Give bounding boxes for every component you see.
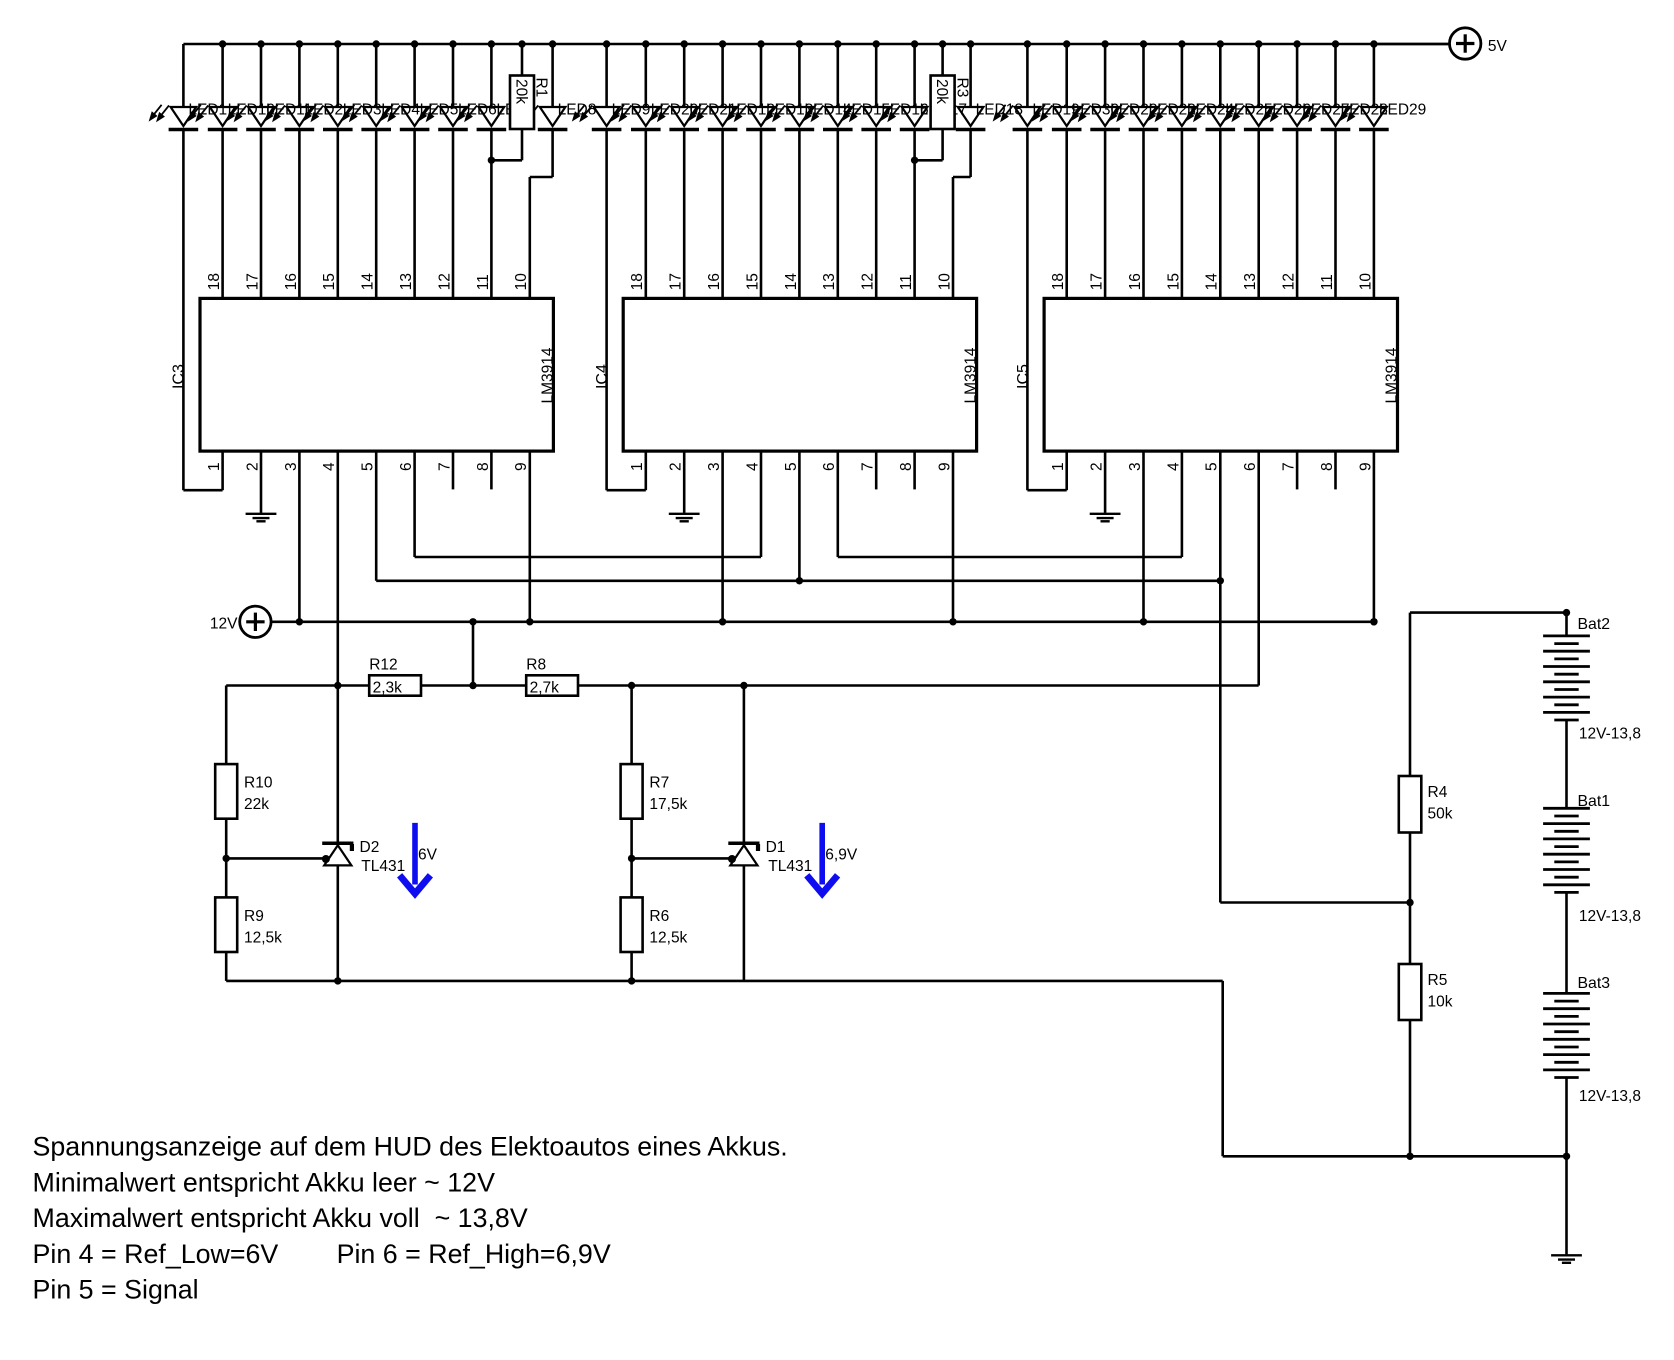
- svg-text:LM3914: LM3914: [963, 347, 980, 403]
- IC4 LM3914 body: [623, 298, 976, 451]
- wire pin2 IC3 to ground: [260, 451, 263, 513]
- wire LED11 cathode to IC3 top pin: [260, 130, 263, 299]
- wire LED9 cathode down to pin 1 of IC4: [605, 130, 608, 491]
- wire R9 to bottom bus: [225, 952, 228, 981]
- wire LED7 anode to 5V rail: [490, 44, 493, 107]
- svg-text:15: 15: [1165, 273, 1182, 290]
- svg-text:2: 2: [668, 462, 685, 471]
- svg-text:Pin 5 = Signal: Pin 5 = Signal: [33, 1275, 199, 1305]
- wire Ref chain IC4 pin6 to IC5 pin4: [838, 556, 1182, 559]
- svg-text:2: 2: [244, 462, 261, 471]
- svg-text:18: 18: [1050, 273, 1067, 290]
- svg-text:Pin 4 = Ref_Low=6V: Pin 4 = Ref_Low=6V: [33, 1239, 279, 1269]
- wire pin9 IC4 to 12V rail: [952, 451, 955, 622]
- wire pin2 IC4 to ground: [683, 451, 686, 513]
- LED LED11: [228, 105, 276, 130]
- LED LED28: [1302, 105, 1350, 130]
- resistor R8 body: [526, 675, 578, 695]
- wire LED10 anode to 5V rail: [221, 44, 224, 107]
- svg-text:10: 10: [513, 273, 530, 291]
- svg-text:12V: 12V: [210, 615, 238, 632]
- svg-text:R8: R8: [526, 657, 546, 674]
- wire LED29 cathode to IC5 top pin: [1373, 130, 1376, 299]
- wire LED25 anode to 5V rail: [1219, 44, 1222, 107]
- svg-text:3: 3: [706, 462, 723, 471]
- shunt regulator D1 TL431: [728, 842, 760, 866]
- resistor R10 body: [215, 764, 237, 819]
- svg-text:18: 18: [206, 273, 223, 290]
- svg-text:15: 15: [321, 273, 338, 290]
- wire LED27 cathode to IC5 top pin: [1296, 130, 1299, 299]
- svg-text:13: 13: [821, 273, 838, 290]
- wire pin3 IC4 to 12V rail: [721, 451, 724, 622]
- LED LED1: [150, 105, 198, 130]
- wire LED3 cathode to IC3 top pin: [336, 130, 339, 299]
- svg-text:16: 16: [283, 273, 300, 290]
- svg-text:11: 11: [898, 274, 915, 290]
- wire pin6 IC5 down: [1257, 451, 1260, 685]
- svg-text:3: 3: [283, 462, 300, 471]
- wire LED30 cathode to IC5 top pin: [1065, 130, 1068, 299]
- svg-text:1: 1: [206, 462, 223, 471]
- wire R3 to 5V rail: [941, 44, 944, 76]
- wire signal bus pin5: [376, 579, 1220, 582]
- svg-text:10k: 10k: [1428, 994, 1453, 1011]
- svg-text:IC3: IC3: [171, 364, 188, 389]
- wire pin6 IC3 down: [413, 451, 416, 557]
- svg-text:6: 6: [821, 462, 838, 471]
- svg-text:15: 15: [744, 273, 761, 290]
- ground symbol at IC5 pin 2: [1090, 514, 1121, 522]
- wire LED30 anode to 5V rail: [1065, 44, 1068, 107]
- svg-text:7: 7: [1281, 462, 1298, 471]
- svg-text:6V: 6V: [418, 847, 438, 864]
- wire LED18 anode to 5V rail: [969, 44, 972, 107]
- LED LED18: [937, 105, 985, 130]
- svg-text:Pin 6 = Ref_High=6,9V: Pin 6 = Ref_High=6,9V: [337, 1239, 611, 1269]
- svg-text:Spannungsanzeige auf dem HUD d: Spannungsanzeige auf dem HUD des Elektoa…: [33, 1132, 788, 1162]
- svg-text:17: 17: [668, 273, 685, 290]
- wire LED7 cathode to IC3 top pin: [490, 130, 493, 299]
- ground symbol bottom right: [1551, 1255, 1582, 1263]
- svg-text:20k: 20k: [512, 79, 529, 104]
- wire pin3 IC3 to 12V rail: [298, 451, 301, 622]
- svg-text:8: 8: [475, 462, 492, 471]
- wire 6.9V reference bus to IC5 pin6: [578, 684, 1259, 687]
- wire signal bus down to divider tap: [1219, 581, 1222, 903]
- wire LED21 cathode to IC4 top pin: [683, 130, 686, 299]
- LED LED16: [843, 105, 891, 130]
- wire R7-R6 tap to D1 ref: [632, 857, 732, 860]
- svg-text:12: 12: [1281, 273, 1298, 290]
- svg-text:IC4: IC4: [594, 364, 611, 389]
- wire pin6 IC4 down: [836, 451, 839, 557]
- battery Bat1: [1543, 808, 1590, 892]
- resistor R9 body: [215, 897, 237, 952]
- svg-text:R6: R6: [649, 908, 669, 925]
- svg-text:9: 9: [513, 462, 530, 471]
- LED LED29: [1341, 105, 1389, 130]
- wire LED2 anode to 5V rail: [298, 44, 301, 107]
- wire return bus to ground: [1565, 1156, 1568, 1254]
- junction R3 to LED column: [911, 157, 918, 164]
- wire 6V node to R10: [225, 686, 228, 765]
- wire pin9 IC5 to 12V rail: [1373, 451, 1376, 622]
- LED LED8: [519, 105, 567, 130]
- stub pin7 IC5: [1296, 451, 1299, 489]
- wire R6 to bottom bus: [630, 952, 633, 981]
- wire 6V node to D2 cathode: [336, 686, 339, 842]
- svg-text:R5: R5: [1428, 972, 1448, 989]
- wire LED13 cathode to IC4 top pin: [760, 130, 763, 299]
- wire LED16 cathode to IC4 top pin: [875, 130, 878, 299]
- svg-text:12,5k: 12,5k: [649, 929, 687, 946]
- svg-text:IC5: IC5: [1015, 364, 1032, 389]
- svg-text:5: 5: [360, 462, 377, 471]
- svg-text:TL431: TL431: [768, 858, 812, 875]
- svg-text:10: 10: [1357, 273, 1374, 291]
- svg-text:1: 1: [629, 462, 646, 471]
- IC3 LM3914 body: [200, 298, 553, 451]
- LED LED27: [1264, 105, 1312, 130]
- wire LED12 anode to 5V rail: [721, 44, 724, 107]
- wire LED28 cathode to IC5 top pin: [1334, 130, 1337, 299]
- wire R10 to R9: [225, 819, 228, 898]
- svg-text:Bat2: Bat2: [1578, 616, 1611, 633]
- wire LED5 anode to 5V rail: [413, 44, 416, 107]
- svg-text:18: 18: [629, 273, 646, 290]
- wire pin5 IC3 to signal bus: [375, 451, 378, 581]
- resistor R5 body: [1399, 964, 1422, 1020]
- LED LED10: [189, 105, 237, 130]
- junction R1 to LED column: [488, 157, 495, 164]
- wire LED17 cathode to IC4 top pin: [913, 130, 916, 299]
- svg-text:10: 10: [936, 273, 953, 291]
- wire LED20 cathode to IC4 top pin: [644, 130, 647, 299]
- LED LED2: [266, 105, 314, 130]
- LED LED7: [458, 105, 506, 130]
- wire LED4 anode to 5V rail: [375, 44, 378, 107]
- wire D2 anode to bottom bus: [336, 865, 339, 981]
- LED LED21: [651, 105, 699, 130]
- wire R4 to R5: [1409, 833, 1412, 965]
- wire LED6 cathode to IC3 top pin: [452, 130, 455, 299]
- 6,9V arrow annotation: [809, 823, 835, 894]
- wire LED1 cathode down to pin 1 of IC3: [182, 130, 185, 491]
- svg-text:20k: 20k: [933, 79, 950, 104]
- LED LED12: [689, 105, 737, 130]
- svg-text:6: 6: [398, 462, 415, 471]
- svg-text:12,5k: 12,5k: [244, 929, 282, 946]
- LED LED6: [420, 105, 468, 130]
- svg-text:6,9V: 6,9V: [825, 847, 858, 864]
- wire 6V node: [226, 684, 369, 687]
- svg-text:4: 4: [321, 462, 338, 471]
- svg-text:17: 17: [244, 273, 261, 290]
- wire pin9 IC3 to 12V rail: [528, 451, 531, 622]
- wire LED23 cathode to IC5 top pin: [1142, 130, 1145, 299]
- resistor R3 body: [931, 76, 955, 130]
- svg-text:14: 14: [783, 273, 800, 291]
- svg-text:9: 9: [936, 462, 953, 471]
- wire LED14 cathode to IC4 top pin: [798, 130, 801, 299]
- wire to Bat2: [1565, 613, 1568, 636]
- ground symbol at IC4 pin 2: [669, 514, 700, 522]
- stub pin7 IC3: [452, 451, 455, 489]
- svg-text:LED29: LED29: [1379, 101, 1426, 118]
- wire pin5 IC5 to signal bus: [1219, 451, 1222, 581]
- LED LED30: [1033, 105, 1081, 130]
- wire LED19 cathode down to pin 1 of IC5: [1026, 130, 1029, 491]
- svg-text:R3: R3: [953, 78, 970, 98]
- stub pin8 IC4: [913, 451, 916, 489]
- wire LED16 anode to 5V rail: [875, 44, 878, 107]
- wire LED9 anode to 5V rail: [605, 44, 608, 107]
- resistor R7 body: [621, 764, 643, 819]
- wire LED29 anode to 5V rail: [1373, 44, 1376, 107]
- svg-text:13: 13: [1242, 273, 1259, 290]
- LED LED3: [305, 105, 353, 130]
- wire bottom bus down: [1221, 981, 1224, 1156]
- svg-text:11: 11: [475, 274, 492, 290]
- LED LED13: [728, 105, 776, 130]
- LED LED5: [381, 105, 429, 130]
- LED LED4: [343, 105, 391, 130]
- LED LED14: [766, 105, 814, 130]
- svg-text:Bat1: Bat1: [1578, 793, 1611, 810]
- wire R10-R9 tap to D2 ref: [226, 857, 326, 860]
- svg-text:12V-13,8: 12V-13,8: [1579, 1088, 1641, 1105]
- wire LED23 anode to 5V rail: [1142, 44, 1145, 107]
- wire LED11 anode to 5V rail: [260, 44, 263, 107]
- IC5 LM3914 body: [1044, 298, 1397, 451]
- wire LED18 cathode jog to pin 10 of IC4: [969, 130, 972, 178]
- svg-text:R4: R4: [1428, 784, 1448, 801]
- battery Bat3: [1543, 993, 1590, 1077]
- wire D1 anode to bottom bus: [743, 865, 746, 981]
- bottom reference return bus: [226, 980, 1222, 983]
- wire LED27 anode to 5V rail: [1296, 44, 1299, 107]
- wire pin3 IC5 to 12V rail: [1142, 451, 1145, 622]
- wire R5 to return bus: [1409, 1020, 1412, 1156]
- wire R12 to R8: [421, 684, 526, 687]
- svg-text:16: 16: [706, 273, 723, 290]
- wire pin5 IC4 to signal bus: [798, 451, 801, 581]
- LED LED22: [1072, 105, 1120, 130]
- svg-text:22k: 22k: [244, 796, 269, 813]
- wire LED8 anode to 5V rail: [551, 44, 554, 107]
- wire LED1 anode to 5V rail: [182, 44, 185, 107]
- wire pin4 IC3 to 6V reference: [336, 451, 339, 685]
- LED LED23: [1110, 105, 1158, 130]
- wire LED20 anode to 5V rail: [644, 44, 647, 107]
- svg-text:6: 6: [1242, 462, 1259, 471]
- wire LED19 anode to 5V rail: [1026, 44, 1029, 107]
- svg-text:2: 2: [1089, 462, 1106, 471]
- svg-text:R1: R1: [533, 78, 550, 98]
- svg-text:2,3k: 2,3k: [373, 679, 403, 696]
- svg-text:7: 7: [860, 462, 877, 471]
- svg-text:4: 4: [1165, 462, 1182, 471]
- wire Bat2 to Bat1: [1565, 720, 1568, 808]
- svg-text:17,5k: 17,5k: [649, 796, 687, 813]
- svg-text:Bat3: Bat3: [1578, 975, 1611, 992]
- 5V supply symbol: [1450, 28, 1481, 59]
- wire LED24 anode to 5V rail: [1181, 44, 1184, 107]
- svg-text:R9: R9: [244, 908, 264, 925]
- resistor R12 body: [369, 675, 421, 695]
- wire R7 to R6: [630, 819, 633, 898]
- svg-text:11: 11: [1319, 274, 1336, 290]
- wire LED26 anode to 5V rail: [1257, 44, 1260, 107]
- wire R1 to 5V rail: [521, 44, 524, 76]
- wire LED6 anode to 5V rail: [452, 44, 455, 107]
- wire Bat2 plus to R4: [1409, 613, 1412, 776]
- LED LED15: [805, 105, 853, 130]
- wire LED25 cathode to IC5 top pin: [1219, 130, 1222, 299]
- stub pin8 IC3: [490, 451, 493, 489]
- stub pin7 IC4: [875, 451, 878, 489]
- wire LED22 cathode to IC5 top pin: [1104, 130, 1107, 299]
- wire R1 bottom: [521, 129, 524, 160]
- svg-text:2,7k: 2,7k: [530, 679, 560, 696]
- resistor R4 body: [1399, 776, 1422, 833]
- wire LED12 cathode to IC4 top pin: [721, 130, 724, 299]
- svg-text:LM3914: LM3914: [539, 347, 556, 403]
- svg-text:TL431: TL431: [361, 858, 405, 875]
- wire Bat1 to Bat3: [1565, 892, 1568, 993]
- battery Bat2: [1543, 636, 1590, 720]
- svg-text:5: 5: [783, 462, 800, 471]
- lower return bus: [1223, 1155, 1567, 1158]
- svg-text:Maximalwert entspricht Akku vo: Maximalwert entspricht Akku voll ~ 13,8V: [33, 1203, 528, 1233]
- svg-text:D1: D1: [766, 839, 786, 856]
- resistor R1 body: [510, 76, 534, 130]
- wire Bat3 to return bus: [1565, 1078, 1568, 1157]
- wire 6.9V node to R7: [630, 686, 633, 765]
- svg-text:16: 16: [1127, 273, 1144, 290]
- wire LED4 cathode to IC3 top pin: [375, 130, 378, 299]
- wire LED5 cathode to IC3 top pin: [413, 130, 416, 299]
- svg-text:9: 9: [1357, 462, 1374, 471]
- svg-text:4: 4: [744, 462, 761, 471]
- 12V supply symbol: [240, 606, 271, 637]
- wire LED22 anode to 5V rail: [1104, 44, 1107, 107]
- svg-text:1: 1: [1050, 462, 1067, 471]
- svg-text:12: 12: [860, 273, 877, 290]
- LED LED24: [1149, 105, 1197, 130]
- svg-text:5V: 5V: [1488, 38, 1508, 55]
- svg-text:17: 17: [1089, 273, 1106, 290]
- wire LED14 anode to 5V rail: [798, 44, 801, 107]
- svg-text:12V-13,8: 12V-13,8: [1579, 726, 1641, 743]
- svg-text:50k: 50k: [1428, 806, 1453, 823]
- wire 6.9V node to D1 cathode: [743, 686, 746, 842]
- 12V rail: [271, 620, 1374, 623]
- LED LED9: [573, 105, 621, 130]
- LED LED20: [613, 105, 661, 130]
- svg-text:12V-13,8: 12V-13,8: [1579, 908, 1641, 925]
- wire LED24 cathode to IC5 top pin: [1181, 130, 1184, 299]
- svg-text:5: 5: [1204, 462, 1221, 471]
- svg-text:7: 7: [436, 462, 453, 471]
- shunt regulator D2 TL431: [322, 842, 354, 866]
- wire R3 bottom: [941, 129, 944, 160]
- svg-text:LM3914: LM3914: [1384, 347, 1401, 403]
- svg-text:13: 13: [398, 273, 415, 290]
- svg-text:R10: R10: [244, 775, 273, 792]
- wire to R4-R5 tap: [1220, 901, 1410, 904]
- wire LED26 cathode to IC5 top pin: [1257, 130, 1260, 299]
- wire rail to 5V supply: [1374, 43, 1450, 46]
- wire 12V rail to R12-R8 node: [472, 622, 475, 686]
- wire pin4 IC5 down: [1181, 451, 1184, 557]
- LED LED19: [994, 105, 1042, 130]
- wire pin2 IC5 to ground: [1104, 451, 1107, 513]
- wire LED15 anode to 5V rail: [836, 44, 839, 107]
- ground symbol at IC3 pin 2: [246, 514, 277, 522]
- 5V power rail: [183, 43, 1449, 46]
- svg-text:Minimalwert entspricht Akku le: Minimalwert entspricht Akku leer ~ 12V: [33, 1168, 496, 1198]
- 6V arrow annotation: [402, 823, 428, 894]
- svg-text:14: 14: [1204, 273, 1221, 291]
- wire pin4 IC4 down: [760, 451, 763, 557]
- wire Ref chain IC3 pin6 to IC4 pin4: [415, 556, 761, 559]
- wire LED21 anode to 5V rail: [683, 44, 686, 107]
- svg-text:8: 8: [898, 462, 915, 471]
- svg-text:8: 8: [1319, 462, 1336, 471]
- stub pin8 IC5: [1334, 451, 1337, 489]
- wire LED2 cathode to IC3 top pin: [298, 130, 301, 299]
- wire LED15 cathode to IC4 top pin: [836, 130, 839, 299]
- wire LED17 anode to 5V rail: [913, 44, 916, 107]
- LED LED25: [1187, 105, 1235, 130]
- svg-text:D2: D2: [360, 839, 380, 856]
- wire LED3 anode to 5V rail: [336, 44, 339, 107]
- svg-text:R7: R7: [649, 775, 669, 792]
- svg-text:12: 12: [436, 273, 453, 290]
- LED LED26: [1225, 105, 1273, 130]
- wire LED8 cathode jog to pin 10 of IC3: [551, 130, 554, 178]
- wire LED13 anode to 5V rail: [760, 44, 763, 107]
- svg-text:R12: R12: [369, 657, 397, 674]
- resistor R6 body: [621, 897, 643, 952]
- wire LED10 cathode to IC3 top pin: [221, 130, 224, 299]
- svg-text:3: 3: [1127, 462, 1144, 471]
- LED LED17: [881, 105, 929, 130]
- svg-text:14: 14: [360, 273, 377, 291]
- wire LED28 anode to 5V rail: [1334, 44, 1337, 107]
